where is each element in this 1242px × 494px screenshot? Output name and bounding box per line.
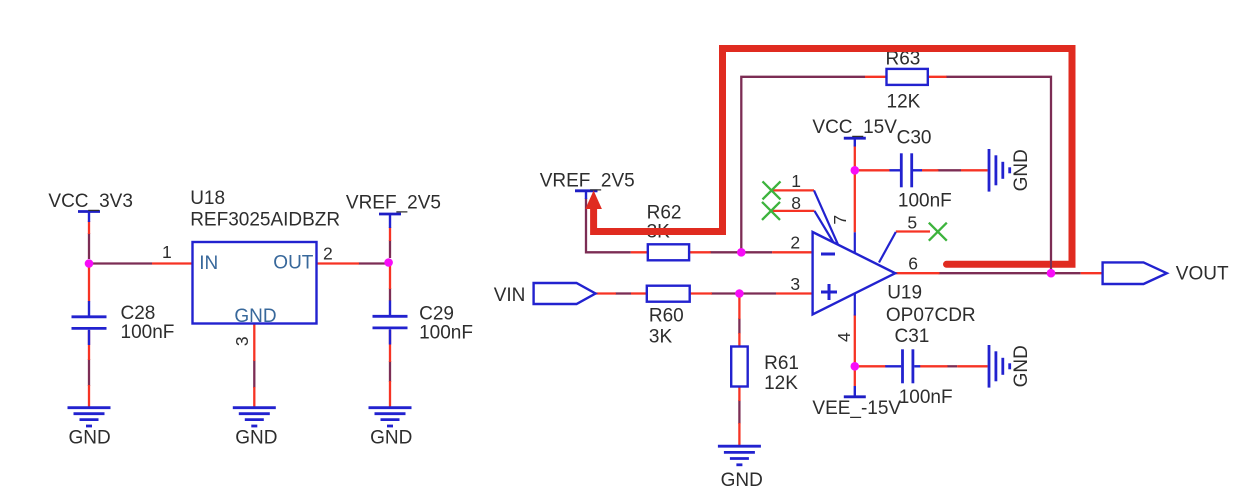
svg-text:OP07CDR: OP07CDR (886, 305, 976, 326)
svg-text:12K: 12K (764, 373, 798, 394)
svg-text:C30: C30 (897, 127, 932, 148)
svg-text:GND: GND (1011, 345, 1032, 387)
svg-text:100nF: 100nF (419, 323, 473, 344)
svg-text:2: 2 (323, 244, 333, 264)
svg-text:R61: R61 (764, 353, 799, 374)
svg-text:12K: 12K (887, 92, 921, 113)
svg-text:R60: R60 (649, 306, 684, 327)
svg-text:3: 3 (790, 274, 800, 294)
svg-text:REF3025AIDBZR: REF3025AIDBZR (190, 210, 340, 231)
svg-text:GND: GND (721, 470, 763, 491)
svg-text:C28: C28 (121, 303, 156, 324)
svg-text:7: 7 (830, 215, 850, 225)
svg-text:GND: GND (69, 428, 111, 449)
svg-text:GND: GND (235, 428, 277, 449)
svg-text:GND: GND (370, 428, 412, 449)
svg-text:6: 6 (908, 253, 918, 273)
svg-text:VOUT: VOUT (1176, 264, 1229, 285)
svg-text:VREF_2V5: VREF_2V5 (540, 171, 635, 192)
svg-text:8: 8 (791, 193, 801, 213)
svg-text:U18: U18 (190, 188, 225, 209)
svg-text:VCC_15V: VCC_15V (812, 117, 897, 138)
svg-text:C31: C31 (895, 326, 930, 347)
svg-text:VREF_2V5: VREF_2V5 (346, 193, 441, 214)
svg-text:1: 1 (791, 171, 801, 191)
svg-text:3: 3 (232, 336, 252, 346)
svg-text:100nF: 100nF (121, 322, 175, 343)
svg-text:5: 5 (907, 213, 917, 233)
svg-text:IN: IN (199, 253, 218, 274)
svg-text:VIN: VIN (494, 285, 526, 306)
svg-text:C29: C29 (419, 304, 454, 325)
svg-text:U19: U19 (887, 282, 922, 303)
svg-text:100nF: 100nF (898, 191, 952, 212)
svg-text:GND: GND (234, 306, 276, 327)
svg-text:OUT: OUT (273, 253, 314, 274)
svg-text:GND: GND (1011, 149, 1032, 191)
svg-text:R62: R62 (647, 202, 682, 223)
svg-text:3K: 3K (649, 327, 673, 348)
svg-text:VCC_3V3: VCC_3V3 (48, 191, 132, 212)
svg-text:100nF: 100nF (899, 387, 953, 408)
svg-text:VEE_-15V: VEE_-15V (812, 398, 901, 419)
svg-text:4: 4 (834, 332, 854, 342)
svg-text:2: 2 (790, 233, 800, 253)
svg-text:1: 1 (162, 242, 172, 262)
